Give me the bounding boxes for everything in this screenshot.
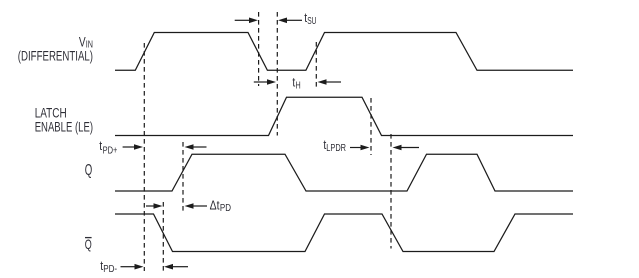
arrow at Q-bar falling edge (tLPDR right) — [401, 147, 419, 149]
dashed reference line at Q-bar falling edge (tLPDR end) — [390, 134, 392, 249]
dashed reference line at VIN rising edge (tPD start) — [143, 43, 145, 271]
arrow tH right — [326, 81, 341, 83]
dashed reference line at Q-bar falling edge (tPD- end) — [162, 202, 164, 271]
waveform LATCH ENABLE — [115, 97, 573, 135]
arrow tH left — [254, 81, 268, 83]
dashed reference line at Q rising edge (tPD+ end) — [182, 142, 184, 214]
arrow tSU left — [235, 19, 250, 21]
arrow tSU right — [287, 19, 303, 21]
svg-text:Δt: Δt — [210, 198, 220, 213]
dashed reference line at LE rising edge (tSU end / tH start) — [276, 12, 278, 136]
arrow at Q-bar fall (tPD- right) — [173, 266, 189, 268]
waveform Q — [115, 154, 573, 191]
arrow tPD- — [121, 266, 135, 268]
svg-text:PD-: PD- — [103, 264, 117, 275]
svg-text:LATCH: LATCH — [35, 106, 67, 121]
svg-text:SU: SU — [307, 16, 316, 27]
arrow delta-tPD left tick — [146, 205, 154, 207]
svg-text:PD: PD — [220, 203, 231, 214]
waveform Q-bar — [115, 214, 573, 252]
arrow delta-tPD right — [193, 205, 207, 207]
arrow tPD+ — [123, 146, 135, 148]
arrow tLPDR — [350, 147, 361, 149]
svg-text:LPDR: LPDR — [326, 143, 346, 154]
dashed reference line at LE falling edge (tLPDR start) — [370, 98, 372, 155]
svg-text:PD+: PD+ — [103, 145, 118, 156]
svg-text:H: H — [296, 81, 301, 92]
dashed reference line at VIN rising edge (tH end) — [315, 42, 317, 90]
svg-text:Q: Q — [85, 162, 93, 179]
svg-text:(DIFFERENTIAL): (DIFFERENTIAL) — [18, 49, 93, 64]
dashed reference line at VIN falling edge (tSU start) — [258, 12, 260, 86]
waveform VIN differential — [115, 33, 573, 71]
arrow at Q rising edge (tPD+ right) — [193, 146, 207, 148]
svg-text:ENABLE (LE): ENABLE (LE) — [35, 119, 93, 134]
